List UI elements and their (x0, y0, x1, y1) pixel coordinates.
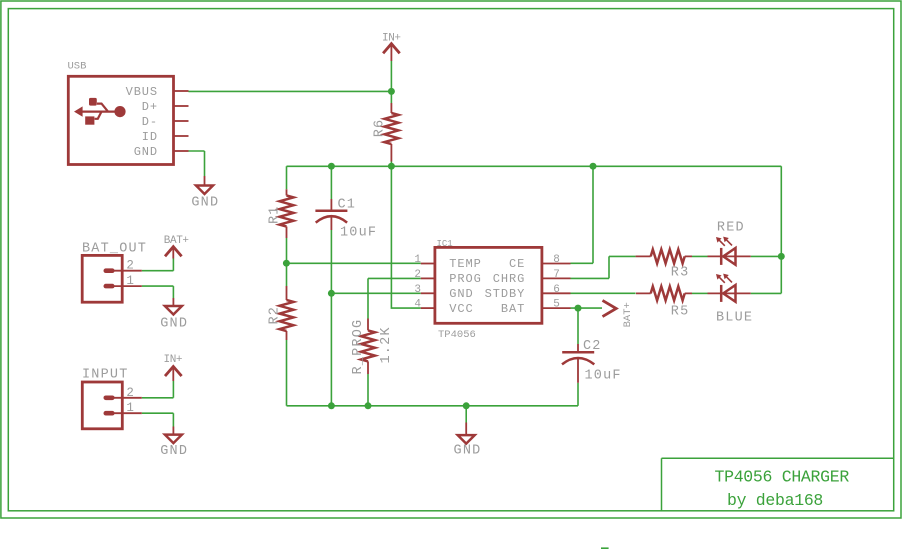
wire pin 3 GND (331, 292, 420, 294)
svg-text:BAT: BAT (501, 302, 525, 316)
capacitor C1 10uF (315, 198, 377, 241)
node R6/VCC junction (388, 163, 395, 170)
svg-text:CHRG: CHRG (493, 272, 525, 286)
resistor R_PROG 1.2K (351, 319, 394, 375)
wire pin 8 CE (571, 166, 594, 263)
svg-text:2: 2 (126, 386, 134, 400)
node VBUS/IN+ junction (388, 88, 395, 95)
op-amp/IC U1 TP4056 (421, 239, 571, 341)
node CE/top-rail junction (590, 163, 597, 170)
svg-text:ID: ID (142, 130, 158, 144)
svg-text:BAT+: BAT+ (622, 302, 634, 327)
svg-text:2: 2 (126, 259, 134, 273)
svg-text:INPUT: INPUT (82, 368, 129, 383)
svg-text:TP4056 CHARGER: TP4056 CHARGER (715, 468, 850, 487)
svg-text:VCC: VCC (449, 302, 473, 316)
svg-text:R_PROG: R_PROG (351, 319, 366, 375)
svg-text:1.2K: 1.2K (379, 326, 394, 363)
wire BAT_OUT pin1 to GND (142, 286, 174, 298)
wire INPUT pin2 to IN+ (142, 381, 174, 398)
wire VBUS net (189, 90, 392, 92)
wire GND stem (465, 406, 467, 423)
svg-text:GND: GND (449, 287, 473, 301)
resistor R3 (636, 249, 692, 280)
svg-text:USB: USB (68, 61, 87, 73)
svg-text:R2: R2 (268, 306, 283, 325)
node pin1/R1-R2 junction (283, 260, 290, 267)
svg-text:1: 1 (126, 401, 134, 415)
svg-text:TP4056: TP4056 (438, 329, 476, 341)
wire top rail (287, 165, 782, 167)
LED RED (LED1) (708, 237, 751, 265)
svg-text:1: 1 (126, 274, 134, 288)
connector USB (68, 76, 188, 164)
wire C2 lower (577, 383, 579, 406)
svg-text:BAT+: BAT+ (164, 235, 189, 247)
supply BAT+ (BAT_OUT) (164, 235, 189, 259)
svg-text:10uF: 10uF (340, 226, 377, 241)
node R_PROG/GND-rail junction (365, 402, 372, 409)
resistor R2 (268, 286, 294, 340)
resistor R5 (636, 286, 692, 319)
wire pin 5 BAT (571, 307, 603, 309)
wire pin 2 PROG (368, 277, 421, 279)
capacitor C2 10uF (562, 339, 622, 384)
svg-text:BAT_OUT: BAT_OUT (82, 241, 147, 256)
svg-text:IN+: IN+ (164, 354, 183, 366)
svg-text:STDBY: STDBY (485, 287, 526, 301)
wire pin 1 TEMP (287, 262, 421, 264)
title block (662, 458, 894, 511)
svg-text:5: 5 (553, 299, 560, 311)
wire BLUE LED to rail (692, 292, 708, 294)
svg-text:2: 2 (414, 269, 421, 281)
svg-text:6: 6 (553, 284, 560, 296)
footer dash (601, 547, 609, 549)
wire IN+ vertical / VCC drop to pin 4 (391, 61, 420, 308)
ground (INPUT) (160, 427, 188, 460)
svg-text:1: 1 (414, 254, 421, 266)
svg-text:D-: D- (142, 115, 158, 129)
svg-text:R1: R1 (268, 205, 283, 224)
svg-text:8: 8 (553, 254, 560, 266)
node C1/GND-rail junction (328, 402, 335, 409)
wire pin 7 CHRG (571, 256, 636, 278)
svg-text:3: 3 (414, 284, 421, 296)
svg-text:BLUE: BLUE (716, 310, 753, 325)
svg-text:IC1: IC1 (437, 239, 453, 249)
node RED-LED/right-rail junction (778, 253, 785, 260)
wire C1 lower (330, 230, 332, 406)
svg-text:R5: R5 (671, 305, 690, 320)
connector BAT_OUT (82, 255, 142, 302)
svg-text:GND: GND (160, 316, 188, 331)
connector INPUT (82, 382, 142, 429)
wire RED LED to rail (692, 255, 781, 257)
wire R_PROG upper (367, 278, 369, 318)
wire C1 upper (330, 166, 332, 199)
svg-text:TEMP: TEMP (449, 257, 481, 271)
ground (BAT_OUT) (160, 298, 188, 331)
node GND-stem junction (463, 402, 470, 409)
svg-text:GND: GND (191, 196, 219, 211)
svg-text:7: 7 (553, 269, 560, 281)
svg-text:R6: R6 (373, 119, 388, 138)
node pin5/BAT+ junction (575, 305, 582, 312)
svg-text:GND: GND (454, 444, 482, 459)
supply IN+ (top) (382, 33, 401, 61)
svg-text:RED: RED (717, 220, 745, 235)
svg-text:GND: GND (160, 444, 188, 459)
svg-text:CE: CE (509, 257, 525, 271)
wire C2 upper (577, 308, 579, 344)
wire USB GND (189, 151, 205, 176)
svg-text:10uF: 10uF (585, 369, 622, 384)
svg-text:C1: C1 (338, 198, 357, 213)
resistor R1 (268, 189, 294, 238)
svg-text:D+: D+ (142, 100, 158, 114)
wire right rail (751, 166, 782, 293)
wire R_PROG lower (367, 374, 369, 406)
node pin3/C1 junction (328, 290, 335, 297)
ground (USB) (191, 176, 219, 211)
svg-text:VBUS: VBUS (126, 85, 158, 99)
wire left rail (R1/R2) (286, 166, 288, 405)
ground (main rail) (454, 423, 482, 459)
svg-text:by deba168: by deba168 (727, 491, 823, 510)
svg-text:IN+: IN+ (382, 33, 401, 45)
resistor R6 (373, 103, 399, 162)
svg-text:C2: C2 (583, 339, 602, 354)
supply BAT+ (pin 5) (603, 300, 635, 327)
wire INPUT pin1 to GND (142, 413, 174, 426)
wire pin 6 STDBY (571, 292, 636, 294)
wire BAT_OUT pin2 to BAT+ (142, 259, 174, 271)
node C1/top-rail junction (328, 163, 335, 170)
LED BLUE (LED2) (708, 274, 751, 302)
svg-text:R3: R3 (671, 266, 690, 281)
supply IN+ (INPUT) (164, 354, 183, 381)
svg-text:4: 4 (414, 299, 421, 311)
svg-text:GND: GND (134, 145, 158, 159)
svg-text:PROG: PROG (449, 272, 481, 286)
wire bottom GND rail (287, 405, 579, 407)
